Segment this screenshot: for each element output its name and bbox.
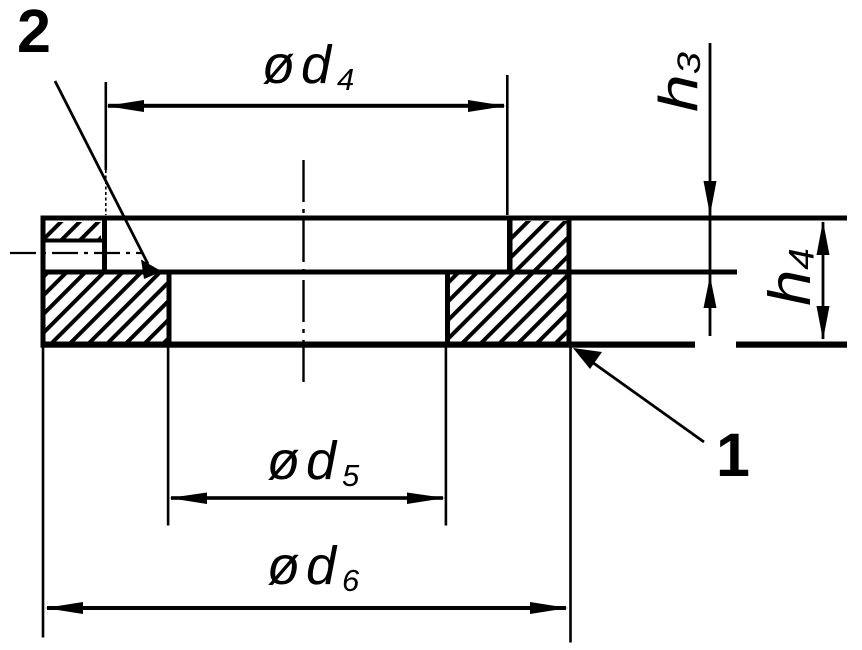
dimension d6 left arrow: [45, 602, 83, 614]
radial hole top line: [46, 239, 103, 243]
dimension d4 line: [108, 104, 504, 108]
extension line d5 left: [167, 348, 170, 526]
extension line d6 right: [569, 348, 572, 643]
dimension d4 left arrow: [106, 100, 144, 112]
extension line d4 left: [105, 82, 108, 170]
dimension h4 bottom arrow: [817, 306, 830, 340]
hatched area bottom-left: [46, 275, 168, 343]
callout 2 arrowhead: [141, 260, 162, 280]
dimension h3 upper arrow: [704, 181, 717, 215]
dimension h4 line: [822, 222, 825, 339]
recess bottom line: [43, 270, 737, 275]
bore right wall: [445, 270, 450, 348]
bore left wall: [167, 270, 172, 348]
svg-text:ød5: ød5: [267, 431, 365, 493]
part top edge: [41, 216, 848, 221]
dimension d5 left arrow: [169, 493, 207, 505]
extension line d6 left: [42, 348, 45, 638]
svg-text:h4: h4: [756, 248, 823, 306]
svg-text:ød4: ød4: [262, 35, 360, 97]
left outer wall: [41, 216, 46, 348]
svg-text:ød6: ød6: [267, 536, 365, 598]
dimension d6 line: [47, 606, 566, 610]
dimension d5 right arrow: [407, 493, 445, 505]
part bottom edge right segment: [736, 342, 847, 348]
left recess wall: [102, 216, 107, 275]
dimension d6 right arrow: [530, 602, 568, 614]
extension line d4 right: [506, 75, 509, 215]
hatched area bottom-right: [450, 275, 567, 343]
hatched area top-right block: [512, 221, 567, 270]
callout 2 leader: [55, 81, 148, 264]
part bottom edge left segment: [41, 342, 696, 348]
right recess wall: [507, 216, 513, 275]
hatched area top-left block: [46, 222, 102, 239]
callout 1 leader: [578, 352, 704, 442]
dimension h4 top arrow: [817, 221, 830, 255]
dimension h3 lower arrow: [704, 276, 717, 308]
dimension d5 line: [171, 496, 443, 500]
right outer wall: [567, 216, 572, 348]
vertical centerline: [302, 160, 304, 386]
radial hole centerline: [10, 252, 143, 254]
svg-text:2: 2: [17, 0, 51, 65]
dimension d4 right arrow: [468, 100, 506, 112]
dimension h3 line: [709, 43, 712, 336]
callout 1 arrowhead: [573, 348, 602, 369]
extension line d5 right: [445, 348, 448, 526]
svg-text:1: 1: [716, 421, 750, 489]
svg-text:h3: h3: [648, 51, 709, 112]
